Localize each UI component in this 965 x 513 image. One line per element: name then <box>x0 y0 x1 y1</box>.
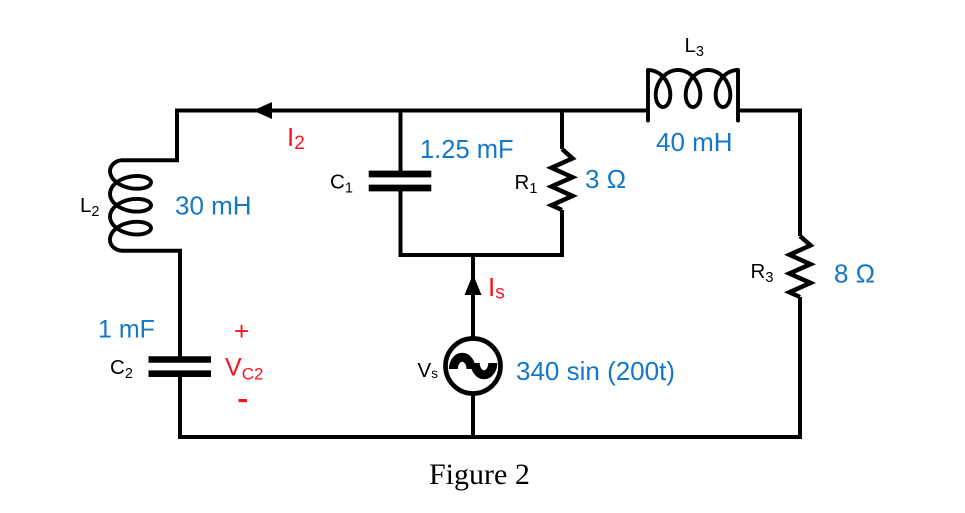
resistor R3 <box>790 236 811 297</box>
resistor R1 lead top <box>560 111 564 150</box>
wire source-to-node <box>471 255 475 337</box>
svg-text:I2: I2 <box>287 122 305 154</box>
svg-text:Figure 2: Figure 2 <box>429 458 530 491</box>
svg-text:C1: C1 <box>330 171 353 197</box>
svg-text:1 mF: 1 mF <box>98 316 155 344</box>
svg-text:R3: R3 <box>751 260 774 286</box>
wire source-to-bottom <box>471 395 475 437</box>
wire L2 top stub <box>122 158 179 162</box>
capacitor C1 lead top <box>399 111 403 172</box>
inductor L2 <box>110 160 151 251</box>
svg-text:R1: R1 <box>515 171 538 197</box>
capacitor C2 plates <box>149 360 212 374</box>
resistor R1 lead bottom <box>560 210 564 257</box>
wire L3-to-corner <box>738 109 800 113</box>
source Vs circle <box>446 339 501 394</box>
svg-text:3 Ω: 3 Ω <box>585 164 626 194</box>
svg-text:30 mH: 30 mH <box>175 191 252 221</box>
capacitor C1 lead bottom <box>399 191 403 258</box>
wire right vertical lower <box>798 297 802 439</box>
svg-text:+: + <box>234 316 249 346</box>
wire bottom <box>178 435 802 439</box>
svg-text:1.25 mF: 1.25 mF <box>420 136 514 164</box>
wire L2 bottom stub <box>122 249 182 253</box>
arrow Is <box>465 274 482 295</box>
inductor L3 <box>648 70 738 121</box>
svg-text:340 sin (200t): 340 sin (200t) <box>516 356 675 386</box>
svg-text:40 mH: 40 mH <box>656 127 733 157</box>
svg-text:L3: L3 <box>685 34 704 60</box>
wire left vertical mid <box>178 251 182 358</box>
svg-text:L2: L2 <box>80 194 99 220</box>
resistor R1 <box>552 149 573 210</box>
svg-text:Is: Is <box>488 272 505 304</box>
svg-text:C2: C2 <box>110 356 133 382</box>
svg-text:Vs: Vs <box>418 359 439 382</box>
capacitor C1 plates <box>369 174 432 188</box>
source Vs sine <box>453 357 471 369</box>
svg-text:8 Ω: 8 Ω <box>834 259 875 289</box>
wire inner bottom <box>399 253 565 257</box>
wire right vertical upper <box>798 109 802 237</box>
wire left vertical upper <box>175 109 179 161</box>
wire top left-to-L3 <box>177 109 648 113</box>
arrow I2 <box>253 102 272 119</box>
label minus <box>239 399 248 402</box>
svg-text:VC2: VC2 <box>225 354 263 384</box>
wire left vertical lower <box>178 376 182 440</box>
